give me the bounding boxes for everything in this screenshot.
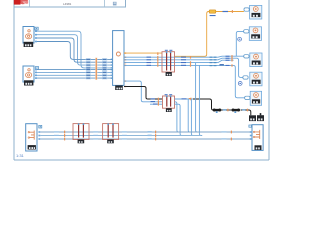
wire J1 to lamp L3 xyxy=(124,56,244,57)
tag of L4 xyxy=(243,76,248,79)
wire R1 to fuse riser (orange) xyxy=(175,12,244,57)
splice ticks left of R2 xyxy=(158,98,159,106)
wire J1 lower stub to R2 (blue) xyxy=(124,81,163,102)
chevron on spare row xyxy=(220,64,224,65)
fusible link FL xyxy=(209,10,216,16)
ground connector GB2 xyxy=(257,113,264,121)
drop wire pair V3 from lamp rows xyxy=(196,63,203,136)
wire labels left of R1 xyxy=(147,57,152,66)
splice tick on orange feed xyxy=(232,10,233,13)
splice ticks left of R1 xyxy=(157,52,158,66)
pins of SW1 xyxy=(38,131,40,140)
relay R1 xyxy=(162,50,175,72)
tag of L1 xyxy=(244,8,249,11)
splice tick on R2 output xyxy=(190,98,191,101)
wire labels right of R1 xyxy=(181,57,186,66)
lamp L3 xyxy=(250,53,262,67)
connector of B1 xyxy=(24,42,34,47)
lamp L5 xyxy=(250,91,261,105)
connector of SW1 xyxy=(28,145,36,149)
filter F2 (bottom run) xyxy=(103,123,119,139)
header icon (right cell) xyxy=(113,2,117,6)
switch SW1 (bottom-left) xyxy=(26,124,37,151)
svg-text:1:31: 1:31 xyxy=(16,153,25,158)
wire labels between filters xyxy=(93,131,98,139)
node label near L2 xyxy=(238,37,242,41)
filter F1 (bottom run) xyxy=(73,123,89,139)
wire B1 pin1 to J1 xyxy=(37,31,113,68)
wire labels left of R2 xyxy=(151,98,158,104)
wire B1 pin4 to J1 xyxy=(37,42,113,60)
splice ticks right of R1 xyxy=(190,56,191,67)
wire labels after F2 xyxy=(122,131,127,139)
noise filter NF1 (black bar) xyxy=(213,109,222,112)
wire labels after SW1 xyxy=(54,131,59,139)
connector of B2 xyxy=(24,80,33,85)
wire riser to L2 xyxy=(236,31,243,56)
component B2 (lower-left sensor) xyxy=(23,66,34,82)
connector of C1 xyxy=(255,145,262,150)
svg-text:L4981: L4981 xyxy=(63,2,72,6)
tag of C1 xyxy=(249,125,252,127)
splice ticks before C1 xyxy=(231,131,232,141)
splice ticks on bundle (orange) xyxy=(95,58,97,81)
connector chevrons mid-span xyxy=(210,57,217,67)
wire B2 pin1 to J1 xyxy=(37,69,113,71)
wire B2 pin3 to J1 xyxy=(37,74,113,76)
wire B1 pin3 to J1 xyxy=(37,38,113,62)
wire R2 output (blue lead) xyxy=(175,98,194,100)
wire B2 pin4 to J1 xyxy=(37,77,113,79)
wire R2 output ground lead (black) xyxy=(193,99,213,110)
header cell divider 1 xyxy=(29,0,31,7)
border frame right edge xyxy=(268,0,270,160)
tag of L5 xyxy=(245,96,250,99)
wire code labels on bundle (left group) xyxy=(86,58,91,80)
wire labels mid bottom run xyxy=(148,131,152,140)
splice ticks mid bottom run xyxy=(155,131,156,141)
wire B1 pin2 to J1 xyxy=(37,35,113,65)
splice ticks after SW1 xyxy=(64,131,65,141)
wire J1 to lamp L4 xyxy=(124,58,243,77)
pins of B1 xyxy=(35,30,37,42)
right pins of J1 xyxy=(124,52,126,87)
splice tick after NF2 xyxy=(247,109,248,112)
label on orange feed xyxy=(223,11,229,12)
relay R2 xyxy=(163,94,175,108)
stub wire into R2 pin3 xyxy=(150,103,163,105)
title block header bar xyxy=(14,0,126,7)
wire SW1 pin1 to C1 xyxy=(40,131,250,133)
wire labels before C1 xyxy=(222,131,227,139)
ground connector GB1 xyxy=(249,115,256,121)
chevron after NF2 xyxy=(242,109,245,110)
connector of R2 xyxy=(166,108,172,112)
wire SW1 pin2 to C1 xyxy=(40,135,201,137)
header cell divider 2 xyxy=(103,0,105,7)
lamp L4 xyxy=(250,72,262,86)
wire code labels on bundle (right group) xyxy=(102,58,107,80)
splice ticks near lamp fan-out xyxy=(231,55,232,67)
connector of F2 xyxy=(107,140,114,144)
splice tick between filters xyxy=(227,109,228,112)
wire J1 spare row xyxy=(124,60,234,62)
node label near L4 xyxy=(238,82,242,86)
border frame bottom edge xyxy=(14,159,269,161)
border frame left edge xyxy=(13,0,15,160)
connector of F1 xyxy=(78,140,85,144)
wire labels near lamp fan-out xyxy=(226,56,230,66)
drop wire pair V2 from ground lead xyxy=(188,99,194,136)
left pins of J1 xyxy=(111,59,113,79)
connector of J1 xyxy=(115,85,123,90)
lamp L1 xyxy=(250,5,262,19)
connector box C1 (bottom-right) xyxy=(252,125,263,151)
label between filters xyxy=(223,109,227,110)
connector tag of B1 xyxy=(35,27,38,30)
pins of C1 xyxy=(250,131,252,140)
tag of L3 xyxy=(244,55,249,58)
junction block J1 (tall middle box) xyxy=(113,31,124,86)
wire J1 bottom stub to R2 (black) xyxy=(124,87,163,100)
noise filter NF2 (black bar) xyxy=(232,109,241,112)
connector of R1 xyxy=(166,72,172,76)
connector tag of B2 xyxy=(35,67,38,70)
wire NF2 to ground block xyxy=(241,110,251,115)
splice tick on V2 top xyxy=(189,98,192,99)
pins of B2 xyxy=(35,69,37,79)
pin under NF2 xyxy=(234,111,236,113)
SECTION: wire bundles xyxy=(37,31,113,78)
connector tag of SW1 xyxy=(39,125,42,128)
pin under NF1 xyxy=(216,111,218,113)
tag of L2 xyxy=(244,30,249,33)
wire J1 to lamp L5 xyxy=(124,65,245,97)
wire between filters xyxy=(221,109,232,111)
wire B2 pin2 to J1 xyxy=(37,71,113,73)
wire J1 to R1 (power, orange) xyxy=(124,52,162,54)
drop wire pair V1 from R2 outputs xyxy=(175,102,184,136)
wire SW1 pin3 to C1 xyxy=(40,138,250,140)
lamp L2 xyxy=(249,27,261,41)
label on R2 output xyxy=(182,98,187,99)
logo (red) in title block xyxy=(14,0,28,5)
component B1 (top-left sensor) xyxy=(23,27,34,44)
